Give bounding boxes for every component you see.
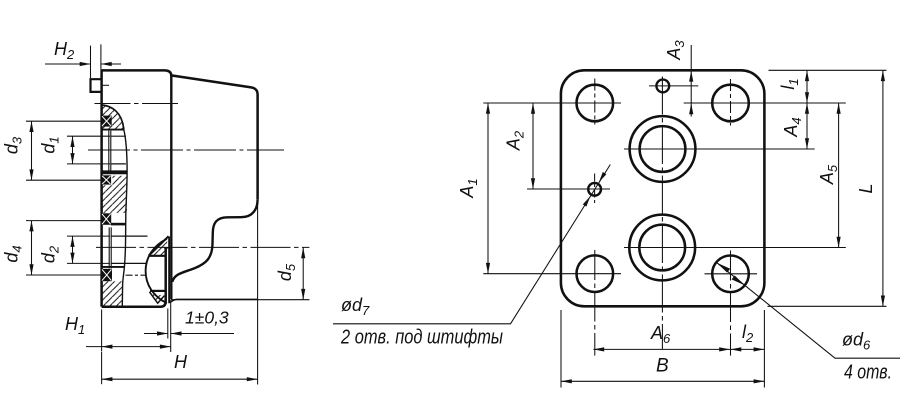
dim d5 extension bottom bbox=[171, 299, 310, 301]
center hole upper inner bbox=[640, 126, 686, 172]
dim d1 line and arrows bbox=[72, 136, 74, 164]
hatch: dome above upper port bbox=[102, 105, 124, 130]
dim d5 line and arrows bbox=[302, 247, 304, 299]
centerline vertical bottom-right hole extended to A6 bbox=[730, 251, 732, 356]
corner hole bottom-left bbox=[577, 255, 614, 292]
dim A5 line and arrows bbox=[838, 103, 840, 248]
dim L extension top and bottom bbox=[768, 70, 887, 306]
upper chain line y=103.5 bbox=[95, 103, 179, 105]
boss on flange face bbox=[91, 79, 102, 92]
seat pocket top line bbox=[164, 247, 171, 249]
d5 bore axis dash bbox=[126, 274, 147, 276]
lower port: counterbore bottom line bbox=[102, 266, 125, 268]
centerline horizontal upper holes row + A1 A3 extensions bbox=[483, 102, 846, 104]
seat protrusion face vertical bbox=[168, 237, 170, 303]
svg-text:1±0,3: 1±0,3 bbox=[185, 308, 229, 328]
hatch: seat chamfer top bbox=[149, 237, 168, 255]
centerline horizontal top pin hole + A3 extension bbox=[649, 85, 698, 87]
dim H2 line and arrows bbox=[45, 63, 121, 65]
centerline horizontal mid-left pin hole + A2 extension bbox=[527, 188, 610, 190]
seat heavy line top bbox=[149, 255, 166, 257]
pin hole mid-left (d7) bbox=[588, 183, 601, 196]
dim A2 line and arrows bbox=[532, 103, 534, 189]
dim d4 extension lines bbox=[26, 221, 101, 275]
dim H1 line and arrows bbox=[86, 346, 171, 348]
dim d3 extension lines bbox=[26, 121, 101, 180]
lower port: heavy seat band bbox=[111, 223, 125, 226]
dim L line and arrows bbox=[882, 70, 884, 306]
centerline vertical top-left hole bbox=[594, 79, 596, 125]
upper port: counterbore bottom line bbox=[102, 129, 124, 131]
dim H extension line left bbox=[101, 352, 103, 384]
center hole upper outer bbox=[630, 116, 696, 182]
boss hole line bbox=[102, 84, 109, 86]
svg-text:L: L bbox=[856, 183, 876, 193]
o-ring seal lower-top bbox=[101, 213, 111, 225]
dome arc above upper port bbox=[102, 105, 124, 130]
svg-text:B: B bbox=[656, 356, 669, 377]
lower port: bore edges d2 bbox=[111, 236, 147, 263]
dim A1 line and arrows bbox=[487, 103, 489, 274]
hatch: band below lower port bbox=[101, 281, 123, 305]
dim d4 line and arrows bbox=[31, 221, 33, 275]
centerline vertical bottom-left hole extended to A6 bbox=[594, 250, 596, 356]
flange face outline with top edge and taper bbox=[102, 70, 258, 306]
o-ring seal upper-top bbox=[101, 116, 111, 127]
dim l2 arrows bbox=[731, 347, 742, 351]
dim d2 extension lines bbox=[67, 236, 110, 263]
plate outline rounded rectangle bbox=[561, 70, 765, 306]
centerline vertical center column bbox=[661, 77, 663, 350]
dim d1 extension lines bbox=[67, 136, 110, 164]
hatch: seat chamfer bottom bbox=[150, 292, 164, 302]
dim A6 arrows bbox=[593, 347, 604, 351]
main centerline y=150 bbox=[88, 149, 284, 151]
svg-text:2 отв. под штифты: 2 отв. под штифты bbox=[340, 326, 503, 349]
dim H line and arrows bbox=[102, 378, 258, 380]
flange bottom outline with seat pocket wall bbox=[102, 248, 166, 307]
centerline vertical top-right hole bbox=[730, 79, 732, 126]
body back edge vertical bbox=[170, 75, 172, 299]
centerline horizontal lower center hole + A5 extension bbox=[624, 247, 846, 249]
pin hole top (d7) bbox=[656, 80, 669, 93]
hatch: band between ports bbox=[101, 176, 127, 213]
dim H1 extension lines bbox=[102, 300, 171, 352]
dim d3 line and arrows bbox=[31, 121, 33, 180]
inner cavity wall wavy line bbox=[122, 130, 127, 307]
dim A6 l2 shared line bbox=[593, 348, 764, 350]
body bottom edge (behind) with hook to seat bbox=[169, 299, 258, 302]
corner hole bottom-right bbox=[712, 255, 749, 292]
o-ring seal upper-bottom bbox=[102, 175, 112, 184]
center hole lower outer bbox=[629, 215, 695, 281]
leader phi-d6 to bottom-right hole bbox=[717, 263, 900, 359]
upper port: counterbore depth verticals bbox=[109, 131, 111, 171]
dim A4 line and arrows bbox=[806, 103, 808, 149]
lower port: counterbore depth verticals bbox=[109, 227, 111, 268]
spherical cavity arc bbox=[146, 239, 167, 303]
upper port: heavy seat band bbox=[101, 170, 127, 174]
svg-text:H: H bbox=[174, 352, 188, 372]
dim d2 line and arrows bbox=[72, 236, 74, 263]
seat chamfer diagonal top bbox=[149, 236, 169, 255]
dim B extension lines bbox=[561, 310, 764, 388]
centerline horizontal upper center hole + A4 extension bbox=[624, 148, 815, 150]
S-curve waist profile bbox=[172, 199, 257, 282]
dim H2 extension lines bbox=[91, 44, 101, 78]
centerline horizontal lower holes row + A1 extension bbox=[483, 273, 757, 275]
upper port: bore edges d1 bbox=[111, 136, 126, 164]
lower port axis centerline y=247.4 bbox=[96, 246, 309, 248]
svg-text:4 отв.: 4 отв. bbox=[844, 362, 892, 384]
dim l1 line and arrows bbox=[806, 70, 808, 103]
corner hole top-left bbox=[577, 85, 614, 122]
dim 1pm03 line and arrows bbox=[144, 333, 234, 335]
dim H extension line right bbox=[257, 200, 259, 385]
o-ring seal lower-bottom bbox=[101, 269, 112, 281]
center hole lower inner bbox=[639, 225, 685, 271]
dim A3 line and arrows bbox=[690, 45, 692, 117]
dim B line and arrows bbox=[561, 380, 764, 382]
centerline vertical mid-left pin hole bbox=[594, 174, 596, 204]
dim 1pm03 extension lines bbox=[167, 309, 169, 339]
seat chamfer V bottom bbox=[149, 292, 164, 303]
seat heavy line bottom bbox=[150, 290, 166, 292]
leader phi-d7 to mid-left pin hole bbox=[333, 165, 610, 324]
corner hole top-right bbox=[712, 85, 749, 122]
